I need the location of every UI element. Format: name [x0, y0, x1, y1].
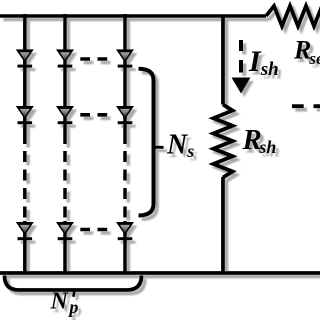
svg-text:Rse: Rse: [293, 36, 320, 69]
diode column 1 row 3: [16, 222, 34, 240]
diode column 2 row 2: [56, 106, 74, 124]
resistor Rse zigzag: [266, 6, 320, 26]
diode column 3 row 2: [116, 106, 134, 124]
brace Np cusp tick: [72, 290, 76, 297]
wire: dashed link row 2 between columns 2 and 3: [80, 113, 107, 117]
wire: column 3 dashed middle: [123, 151, 127, 219]
wire: column 1 solid: [23, 14, 27, 144]
wire: column 2 lower solid: [63, 221, 67, 273]
diode column 1 row 2: [16, 106, 34, 124]
diode column 2 row 1: [56, 49, 74, 67]
diode column 2 row 3: [56, 222, 74, 240]
brace Ns (series count): [139, 69, 154, 216]
diode column 3 row 3: [116, 222, 134, 240]
resistor Rsh zigzag: [214, 105, 233, 178]
wire: column 1 dashed middle: [23, 151, 27, 219]
wire: bottom bus: [0, 271, 320, 275]
wire: column 2 dashed middle: [63, 151, 67, 219]
wire: column 3 solid: [123, 14, 127, 144]
wire: column 3 lower solid: [123, 221, 127, 273]
svg-text:Ns: Ns: [166, 130, 194, 162]
wire: shunt branch vertical: [221, 16, 225, 105]
wire: dashed link row 3 between columns 2 and 3: [80, 228, 107, 232]
wire: dashed link row 1 between columns 2 and 3: [80, 57, 107, 61]
current arrow Ish dashed shaft: [239, 40, 243, 73]
svg-text:Rsh: Rsh: [242, 124, 277, 157]
wire: top bus: [0, 14, 266, 18]
brace Np (parallel count): [5, 276, 142, 291]
wire: shunt branch lower: [221, 177, 225, 273]
diode column 1 row 1: [16, 49, 34, 67]
diode column 3 row 1: [116, 49, 134, 67]
wire: column 2 solid: [63, 14, 67, 144]
current arrow Ish head: [232, 78, 251, 94]
wire: column 1 lower solid: [23, 221, 27, 273]
wire: dashed stub right edge: [292, 104, 320, 108]
svg-text:Ish: Ish: [248, 45, 279, 80]
